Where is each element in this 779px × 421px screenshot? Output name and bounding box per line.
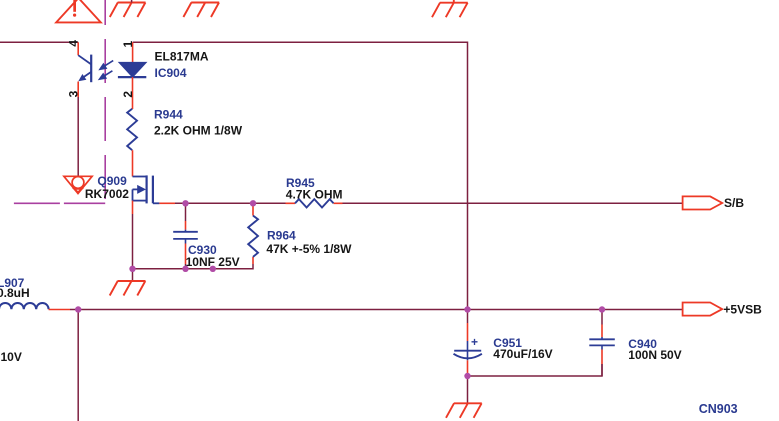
ground below Q909 [132, 269, 134, 281]
wire: opto pin 1 lead [132, 42, 134, 62]
connector +5VSB [683, 303, 723, 316]
node: bottom net mid [210, 266, 216, 272]
svg-text:470uF/16V: 470uF/16V [493, 347, 552, 361]
ground below C951 [467, 376, 469, 403]
warning triangle symbol [56, 0, 101, 22]
node: bottom net / C930 [182, 266, 188, 272]
optocoupler IC904 LED [118, 62, 146, 77]
svg-text:47K +-5% 1/8W: 47K +-5% 1/8W [266, 242, 352, 256]
connector S/B [683, 196, 723, 209]
wire: left net to opto pin 4 [0, 41, 78, 43]
svg-text:RK7002: RK7002 [85, 187, 129, 201]
wire: S/B net right [343, 202, 683, 204]
ground (top left) [110, 3, 146, 18]
svg-text:R944: R944 [154, 108, 183, 122]
wire: bottom net [133, 264, 254, 269]
wire: R944 to Q909 drain [132, 150, 134, 176]
wire: source down to bottom net [132, 214, 134, 269]
node: +5VSB / L907 [75, 306, 81, 312]
optocoupler IC904 light arrows [98, 61, 113, 81]
wire: +5VSB net [70, 309, 683, 311]
svg-text:EL817MA: EL817MA [155, 50, 209, 64]
svg-text:100N 50V: 100N 50V [628, 348, 681, 362]
optocoupler IC904 phototransistor [78, 55, 91, 83]
svg-text:Q909: Q909 [97, 174, 127, 188]
wire: pin 3 to chassis-live symbol [77, 97, 79, 176]
wire: Q909 gate red stub [159, 202, 175, 204]
capacitor C930 [173, 203, 198, 268]
svg-text:4: 4 [67, 40, 81, 47]
ground (top right) [432, 0, 468, 17]
chassis-live symbol (triangle-circle) [64, 176, 92, 193]
svg-text:IC904: IC904 [155, 66, 187, 80]
capacitor C940 [589, 310, 615, 377]
svg-text:3: 3 [67, 90, 81, 97]
resistor R945 [286, 199, 343, 207]
svg-text:2.2K OHM 1/8W: 2.2K OHM 1/8W [154, 124, 243, 138]
svg-text:S/B: S/B [724, 196, 744, 210]
ground (top middle) [183, 3, 219, 18]
node: C951 bottom / ground [464, 373, 470, 379]
wire: S/B net left [175, 202, 286, 204]
svg-text:0.8uH: 0.8uH [0, 286, 30, 300]
svg-text:R964: R964 [267, 229, 296, 243]
transistor Q909 MOSFET [133, 175, 160, 203]
svg-text:+: + [471, 335, 478, 349]
svg-text:+5VSB: +5VSB [723, 303, 762, 317]
node: +5VSB / C951 [464, 306, 470, 312]
wire: opto pin 2 lead [132, 77, 134, 109]
svg-text:10V: 10V [1, 350, 22, 364]
wire: Q909 source lead [132, 201, 134, 214]
wire: opto pin 4 lead [77, 42, 79, 55]
node: S/B / C930 [182, 200, 188, 206]
junction node dots [75, 200, 605, 379]
wire: C951 bottom net [468, 364, 603, 376]
svg-text:4.7K OHM: 4.7K OHM [286, 187, 343, 201]
resistor R964 [248, 203, 258, 264]
svg-text:CN903: CN903 [699, 402, 738, 416]
wire: opto pin 3 lead [77, 82, 79, 98]
svg-text:2: 2 [121, 91, 135, 98]
wire: opto pin1 net to right rail [133, 42, 468, 309]
capacitor C951 [454, 310, 482, 377]
resistor R944 [127, 109, 137, 150]
node: +5VSB / C940 [599, 306, 605, 312]
inductor L907 [0, 303, 49, 309]
isolation boundary dashed line (vertical) [104, 0, 106, 203]
node: S/B / R964 [250, 200, 256, 206]
node: bottom net / Q909 source [129, 266, 135, 272]
wire: L907 red stub [49, 309, 70, 311]
svg-text:1: 1 [121, 41, 135, 48]
wire: +5VSB branch down left [77, 310, 79, 421]
isolation boundary dashed line (horizontal) [14, 202, 105, 204]
